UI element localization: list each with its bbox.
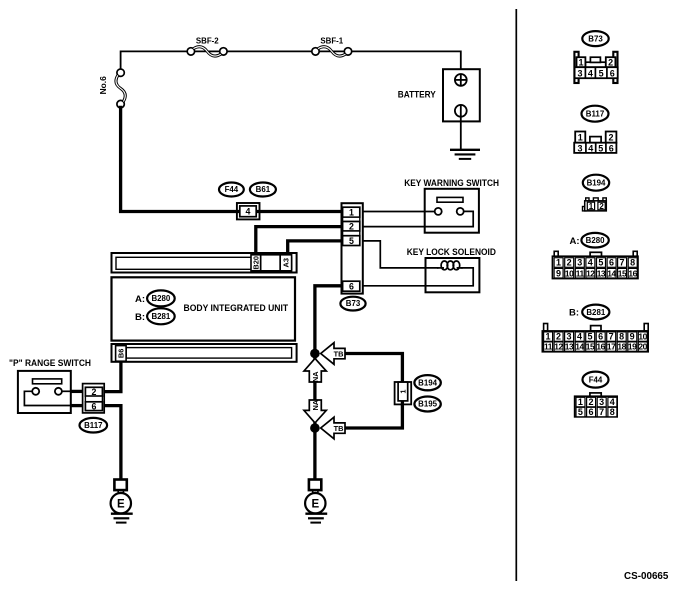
ground left (E) xyxy=(111,480,133,523)
svg-text:1: 1 xyxy=(399,389,408,393)
svg-text:4: 4 xyxy=(246,207,251,217)
connector F44 oval xyxy=(219,183,244,197)
wire top horizontal from No.6 corner to battery corner xyxy=(121,51,461,74)
switch contacts xyxy=(435,208,442,215)
svg-text:6: 6 xyxy=(609,258,614,268)
svg-text:12: 12 xyxy=(586,268,595,278)
connector 1 (B194/B195) box xyxy=(395,382,412,404)
pin A3 box xyxy=(280,255,291,271)
connector B194 pinout xyxy=(583,198,607,211)
svg-text:E: E xyxy=(117,498,125,510)
connector B73 oval xyxy=(340,297,365,311)
wire B117 pin6 down to ground xyxy=(104,406,121,480)
wire B6 down to B117 pin2 xyxy=(104,362,121,392)
svg-text:B280: B280 xyxy=(586,236,605,245)
pin B20 box xyxy=(251,255,261,271)
svg-text:18: 18 xyxy=(617,342,626,352)
battery xyxy=(398,69,480,149)
svg-text:KEY WARNING SWITCH: KEY WARNING SWITCH xyxy=(404,178,499,189)
svg-text:F44: F44 xyxy=(589,375,603,384)
wire pin2 to switch contact xyxy=(363,211,473,226)
key lock solenoid xyxy=(407,247,496,292)
svg-text:8: 8 xyxy=(630,258,635,268)
svg-text:14: 14 xyxy=(575,342,584,352)
wire pin1 to switch contact xyxy=(363,211,435,213)
battery ground xyxy=(450,150,480,159)
svg-text:16: 16 xyxy=(628,268,637,278)
svg-text:13: 13 xyxy=(565,342,574,352)
svg-text:2: 2 xyxy=(567,258,572,268)
svg-text:F44: F44 xyxy=(225,185,239,194)
svg-text:B281: B281 xyxy=(586,308,605,317)
connector F44 pinout xyxy=(575,393,618,417)
svg-text:No.6: No.6 xyxy=(98,76,108,94)
connector B194 pinout oval xyxy=(583,175,609,191)
svg-text:BATTERY: BATTERY xyxy=(398,90,437,101)
svg-text:14: 14 xyxy=(607,268,616,278)
ground right (E) xyxy=(305,480,327,523)
wire pin6 to solenoid xyxy=(363,268,473,286)
connector B117 pinout oval xyxy=(582,106,609,122)
svg-text:8: 8 xyxy=(610,407,615,417)
svg-text:17: 17 xyxy=(607,342,616,352)
fuse SBF-1 xyxy=(312,37,352,56)
wire pin5 B73 to A3 xyxy=(288,241,342,256)
svg-text:4: 4 xyxy=(610,397,615,407)
pin B6 box xyxy=(116,346,127,362)
connector B194 oval xyxy=(414,375,440,390)
pin 4 box on wire xyxy=(237,203,260,219)
svg-text:7: 7 xyxy=(599,407,604,417)
svg-text:A:: A: xyxy=(569,236,579,247)
connector B73 pinout oval xyxy=(582,31,608,46)
svg-text:1: 1 xyxy=(578,397,583,407)
junction node upper xyxy=(310,349,320,359)
svg-text:4: 4 xyxy=(577,332,582,342)
svg-text:7: 7 xyxy=(619,258,624,268)
connector B: B281 pinout xyxy=(542,324,648,352)
svg-text:2: 2 xyxy=(349,221,354,231)
svg-text:5: 5 xyxy=(598,144,603,154)
svg-text:10: 10 xyxy=(638,332,647,342)
svg-text:6: 6 xyxy=(598,332,603,342)
svg-text:1: 1 xyxy=(556,258,561,268)
svg-text:5: 5 xyxy=(587,332,592,342)
svg-text:SBF-1: SBF-1 xyxy=(320,37,343,46)
svg-text:3: 3 xyxy=(577,144,582,154)
svg-text:E: E xyxy=(311,498,319,510)
svg-text:NA: NA xyxy=(311,371,320,382)
svg-text:B281: B281 xyxy=(151,312,170,321)
svg-text:2: 2 xyxy=(608,132,613,142)
arrow NA upper (up) xyxy=(304,358,326,382)
svg-text:1: 1 xyxy=(578,58,583,68)
svg-text:3: 3 xyxy=(577,69,582,79)
connector B: B281 pinout oval xyxy=(569,305,609,320)
body integrated unit xyxy=(112,253,297,273)
svg-text:15: 15 xyxy=(618,268,627,278)
svg-text:6: 6 xyxy=(92,401,97,411)
svg-text:9: 9 xyxy=(630,332,635,342)
svg-text:B20: B20 xyxy=(252,256,261,270)
connector B117 schematic xyxy=(83,384,105,413)
svg-text:4: 4 xyxy=(588,258,593,268)
svg-text:SBF-2: SBF-2 xyxy=(196,37,219,46)
connector B117 pinout xyxy=(574,132,616,154)
wire left contact to pin6 xyxy=(24,391,72,405)
svg-text:6: 6 xyxy=(610,69,615,79)
svg-text:B:: B: xyxy=(569,308,579,319)
connector B117 oval xyxy=(80,418,108,433)
svg-text:9: 9 xyxy=(556,268,561,278)
svg-text:5: 5 xyxy=(349,236,354,246)
svg-text:B195: B195 xyxy=(418,400,437,409)
svg-text:1: 1 xyxy=(589,202,594,211)
connector B73 pinout xyxy=(574,52,617,83)
fuse SBF-2 xyxy=(187,37,227,56)
svg-text:2: 2 xyxy=(92,387,97,397)
svg-text:B:: B: xyxy=(135,312,145,323)
divider line xyxy=(515,9,517,581)
solenoid coil xyxy=(437,267,444,269)
svg-text:10: 10 xyxy=(565,268,574,278)
svg-text:2: 2 xyxy=(608,58,613,68)
svg-text:NA: NA xyxy=(311,399,320,410)
svg-text:19: 19 xyxy=(628,342,637,352)
svg-text:5: 5 xyxy=(599,69,604,79)
svg-text:6: 6 xyxy=(349,281,354,291)
svg-text:20: 20 xyxy=(638,342,647,352)
wire pin6 B73 down to ground xyxy=(315,286,342,480)
connector F44 pinout oval xyxy=(583,372,609,388)
wire pin5 to solenoid xyxy=(363,241,439,268)
svg-text:2: 2 xyxy=(588,397,593,407)
svg-text:"P" RANGE SWITCH: "P" RANGE SWITCH xyxy=(9,358,91,369)
P range switch xyxy=(9,358,91,413)
key warning switch xyxy=(404,178,499,233)
svg-text:B73: B73 xyxy=(588,34,603,43)
svg-text:A3: A3 xyxy=(282,258,291,267)
junction node lower xyxy=(310,423,320,433)
connector B195 oval xyxy=(414,397,440,412)
arrow NA lower (down) xyxy=(304,399,326,423)
svg-text:4: 4 xyxy=(588,144,593,154)
svg-text:7: 7 xyxy=(609,332,614,342)
svg-text:1: 1 xyxy=(545,332,550,342)
svg-text:CS-00665: CS-00665 xyxy=(624,571,669,582)
svg-text:3: 3 xyxy=(599,397,604,407)
body integrated unit main box xyxy=(112,277,296,340)
connector A: B280 pinout xyxy=(552,251,638,278)
fuse No.6 xyxy=(98,69,125,108)
svg-text:B117: B117 xyxy=(586,110,605,119)
svg-text:1: 1 xyxy=(578,132,583,142)
svg-text:B194: B194 xyxy=(418,378,437,387)
svg-text:1: 1 xyxy=(349,207,354,217)
svg-text:2: 2 xyxy=(599,202,604,211)
connector A: B280 pinout oval xyxy=(569,233,608,248)
arrow TB upper xyxy=(321,343,345,365)
svg-text:6: 6 xyxy=(609,144,614,154)
svg-text:TB: TB xyxy=(334,349,344,358)
svg-text:11: 11 xyxy=(576,268,585,278)
svg-text:KEY LOCK SOLENOID: KEY LOCK SOLENOID xyxy=(407,247,496,258)
svg-text:3: 3 xyxy=(577,258,582,268)
body integrated unit bottom strip xyxy=(112,344,297,362)
wire TB loop through connector 1 xyxy=(345,354,403,429)
svg-text:12: 12 xyxy=(554,342,563,352)
svg-text:B6: B6 xyxy=(116,349,125,358)
svg-text:BODY INTEGRATED UNIT: BODY INTEGRATED UNIT xyxy=(184,303,289,314)
arrow TB lower xyxy=(321,417,345,439)
svg-text:6: 6 xyxy=(588,407,593,417)
svg-text:16: 16 xyxy=(596,342,605,352)
svg-text:TB: TB xyxy=(334,424,344,433)
svg-text:B117: B117 xyxy=(84,421,103,430)
svg-text:B61: B61 xyxy=(256,185,271,194)
connector B73 schematic xyxy=(342,203,363,293)
svg-text:5: 5 xyxy=(598,258,603,268)
wire pin2 B73 to B20 xyxy=(256,227,342,256)
empty slot box between B20 and A3 xyxy=(261,255,281,271)
svg-text:2: 2 xyxy=(556,332,561,342)
svg-text:4: 4 xyxy=(588,69,593,79)
svg-text:B194: B194 xyxy=(587,179,606,188)
connector B61 oval xyxy=(250,183,276,197)
wire right contact to pin2 xyxy=(62,390,72,392)
P range switch contacts xyxy=(32,388,39,395)
svg-text:8: 8 xyxy=(619,332,624,342)
svg-text:11: 11 xyxy=(544,342,553,352)
svg-text:15: 15 xyxy=(586,342,595,352)
svg-text:B73: B73 xyxy=(346,299,361,308)
svg-text:3: 3 xyxy=(566,332,571,342)
svg-text:13: 13 xyxy=(597,268,606,278)
svg-text:5: 5 xyxy=(578,407,583,417)
svg-text:B280: B280 xyxy=(151,294,170,303)
wire main thick from fuse No.6 down and right to connector B73 pin 1 xyxy=(121,106,342,212)
svg-text:A:: A: xyxy=(135,294,145,305)
